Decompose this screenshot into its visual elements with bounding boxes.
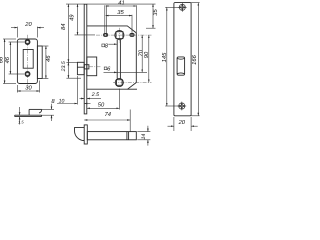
dim 2.5 (faceplate thickness) xyxy=(80,92,102,98)
faceplate top screw xyxy=(178,3,187,12)
dim 35 (faceplate top to body) xyxy=(146,4,159,28)
strike screw hole bottom xyxy=(25,72,29,76)
svg-text:90: 90 xyxy=(143,51,150,58)
svg-text:84: 84 xyxy=(60,24,67,30)
ext line from body right edge up xyxy=(135,5,137,32)
dim 66 (strike height) xyxy=(0,39,16,84)
strike lip (side) xyxy=(29,109,42,115)
svg-text:1.5: 1.5 xyxy=(18,120,24,125)
dim 23.5 (latch height) xyxy=(61,61,81,78)
strike plate centerline xyxy=(27,35,29,87)
top screw slot right xyxy=(130,34,134,37)
strike bent lip (front) xyxy=(37,46,42,79)
top reference extension line xyxy=(66,3,84,5)
dim 46 (strike lip height) xyxy=(43,46,53,79)
ext line from right slot up xyxy=(131,15,133,34)
svg-text:46: 46 xyxy=(45,55,52,62)
svg-text:35: 35 xyxy=(117,9,124,16)
dim 145 (screw spacing) xyxy=(162,7,179,106)
svg-text:50: 50 xyxy=(98,101,105,108)
svg-text:23.5: 23.5 xyxy=(61,61,67,72)
WC hub centerline xyxy=(113,82,152,84)
svg-text:20: 20 xyxy=(24,21,32,28)
dim 30 (strike total width) xyxy=(17,81,39,93)
dim 20 (strike width) xyxy=(11,21,44,38)
svg-text:14: 14 xyxy=(141,134,147,140)
label square 6 xyxy=(104,65,148,72)
dim 74 (depth) xyxy=(84,110,130,132)
dim 90 (hub to wc hub) xyxy=(143,35,150,82)
svg-text:30: 30 xyxy=(25,85,32,92)
bottom plan view: latch head xyxy=(75,128,85,141)
handle hub (square 8 follower) xyxy=(115,30,124,39)
dim 41 xyxy=(106,1,137,7)
dim 84 (body height) xyxy=(60,4,69,62)
svg-text:166: 166 xyxy=(191,54,198,64)
svg-text:145: 145 xyxy=(162,52,168,62)
strike plate side view xyxy=(15,115,42,116)
handle hub centerline horizontal xyxy=(96,34,152,36)
dim 10 (latch protrusion) xyxy=(57,76,91,105)
label square 8 xyxy=(102,42,117,49)
dim 70 (hub to wc slot) xyxy=(137,35,144,72)
top screw slot left xyxy=(104,34,108,37)
strike screw hole top xyxy=(25,40,29,44)
right faceplate front view xyxy=(174,3,191,116)
dim 1.5 (strike thickness) xyxy=(18,107,24,125)
faceplate bottom screw xyxy=(177,102,186,111)
dim 46 (strike screw spacing) xyxy=(4,42,24,74)
bottom plan view: faceplate bar xyxy=(84,125,87,144)
handle hub centerline vertical xyxy=(118,28,120,43)
dim 166 (faceplate height) xyxy=(191,3,200,116)
strike latch cutout xyxy=(23,50,33,69)
svg-text:10: 10 xyxy=(59,99,65,105)
bottom plan view: body bar xyxy=(87,132,136,140)
faceplate latch cutout xyxy=(177,57,185,75)
dim 14 (body thickness) xyxy=(137,126,150,146)
dim 35 (slots) xyxy=(106,9,132,16)
latch bolt (front view) xyxy=(77,57,101,76)
svg-text:35: 35 xyxy=(152,9,159,16)
lock faceplate strip (edge view in body front) xyxy=(84,4,87,114)
strike plate front view xyxy=(17,39,37,84)
svg-text:41: 41 xyxy=(118,1,124,7)
svg-text:46: 46 xyxy=(4,56,11,63)
ext lines from left slot up xyxy=(104,5,106,33)
dim 50 (backset) xyxy=(87,89,120,110)
svg-text:74: 74 xyxy=(105,112,111,118)
dim 49 (hub from top) xyxy=(69,4,95,35)
spindle channel lines xyxy=(117,40,120,79)
body bottom edge stub xyxy=(128,88,138,90)
svg-text:2.5: 2.5 xyxy=(91,92,99,98)
dim 20 (faceplate width) xyxy=(168,117,198,131)
WC hub (square 6 follower) xyxy=(115,78,123,86)
svg-text:20: 20 xyxy=(178,119,186,126)
svg-text:49: 49 xyxy=(69,14,76,21)
dim 8 (strike lip height side) xyxy=(42,98,56,121)
lock body outline xyxy=(87,26,137,89)
